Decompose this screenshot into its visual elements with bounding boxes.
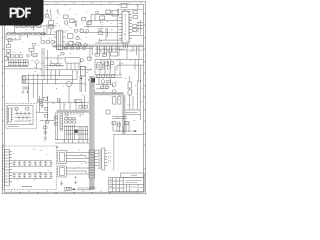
rectifier row [97,75,115,78]
net label box [75,100,82,103]
capacitor C2 [17,32,20,35]
amp block A1 [23,77,26,83]
ground symbol G1 [60,181,63,185]
resistor R25 [39,99,42,102]
resistor R3a [8,39,12,42]
title block main [109,177,144,191]
optocoupler U2 [68,34,74,39]
resistor R31 [99,32,103,35]
option board outline [8,106,33,125]
transformer T1 core lines [59,31,61,50]
frame tick marks bottom [11,191,137,193]
IC U1 left pins [119,15,122,39]
diode D4 [102,54,106,57]
fuse F1 [16,25,20,28]
wire secondary rail [95,59,143,82]
resistor R7 [82,18,86,21]
ribbon bus horizontal band right [94,92,124,95]
wire terminal rails [4,64,43,69]
capacitor C7 [121,4,127,8]
value labels option box [12,107,31,123]
resistor R34 [106,86,109,88]
resistor R15 [33,54,37,57]
terminal block row 1 [9,60,29,63]
ground symbol G4 [44,137,47,139]
resistor R32 [107,80,110,83]
frame tick marks left [2,25,4,169]
connector CN2 [58,151,67,164]
resistor R12 [76,43,80,46]
resistor R36 [84,106,87,109]
resistor R10 [133,11,138,14]
transistor Q5 [44,126,47,129]
wire left drop [9,46,34,60]
ground symbol G2 [74,177,77,184]
value labels av zone [64,150,89,169]
IC U1 type label [125,14,127,40]
thermistor RT1 [37,25,41,28]
IC U1 body [122,11,129,43]
wire right drops [120,59,135,110]
zone digits top margin [20,2,142,4]
band A terminator [89,187,94,190]
capacitor C32 [101,80,105,84]
capacitor C9 [76,36,79,39]
rectifier D1 cluster [47,10,54,33]
resistor R21 [54,117,57,120]
legend triangle [72,188,76,190]
resistor R16 [44,97,47,100]
filter choke L1 [30,25,34,28]
border frame outer [2,2,145,194]
resistor R26 [45,108,48,111]
snubber row [41,41,55,43]
switching MOSFET Q1 [68,42,73,47]
arrow mark [135,130,137,132]
keypad label [22,186,32,188]
ribbon hatch band right [94,93,125,134]
wire sub secondary [95,46,125,53]
terminal block row 2 [9,63,29,66]
keypad row 1 rail [12,161,52,166]
wire primary row [40,26,57,35]
value labels mains zone [7,29,44,52]
option label text [8,125,19,127]
capacitor C25 [40,103,43,106]
frame tick marks top [11,4,137,6]
wire right column [112,80,140,170]
capacitor C23 [118,123,121,126]
resistor R30 [111,62,114,65]
wire bottom rails [55,95,89,143]
protection box [112,11,119,17]
capacitor C2b stack [7,42,11,58]
value labels right bottom [111,97,142,132]
transformer T2 [80,66,85,76]
regulator Q3 [128,90,132,95]
border frame inner [4,4,143,192]
capacitor C18 [61,53,64,55]
dashed option box 2 [3,146,57,189]
capacitor C33 [45,15,49,18]
decoupling row right [113,97,121,105]
output filter row [106,110,110,114]
capacitor C11 [23,87,26,90]
wire main horizontal bus [52,45,143,46]
keyboard connector J2 [5,150,13,186]
wire mains row 1 [15,26,57,34]
capacitor C31 [99,28,102,31]
filter cluster mid [65,118,76,124]
capacitor C17 [86,29,89,32]
connector CN3 [58,166,67,177]
resistor R27 [45,115,48,118]
capacitor C1 [26,25,29,28]
ribbon bus vertical band A [89,76,95,190]
capacitor C12 [26,87,29,90]
value labels keypad zone [13,149,52,180]
capacitor C13 [112,83,116,87]
zone letters left margin [2,13,4,182]
PDF badge plate [0,0,44,26]
diode D2 [75,20,77,27]
PDF badge letter P [10,8,18,18]
wire U1 left fan [80,15,122,44]
wire column mid-left [56,98,83,140]
bus mounted comps [66,44,87,47]
frame tick marks right [143,25,145,169]
capacitor C16 [80,59,83,62]
filter cluster right [112,122,128,125]
dashed option box 1 [6,104,37,129]
rectifier D7 [88,57,92,60]
capacitor CX1 [22,25,26,28]
capacitor C3 [32,43,35,46]
legend box [65,187,72,190]
transformer T1 pins [54,32,66,47]
value labels terminal zone [6,52,48,68]
trimmer cluster right of U1 [133,20,141,34]
input module box [4,57,8,60]
resistor R4 [29,48,34,51]
subcircuit boundary box [117,9,143,50]
PDF badge letter F [25,8,31,18]
relay K2 roundrect [97,63,103,70]
ribbon hatch band A [90,76,93,189]
capacitor C14 [112,90,116,94]
ribbon hatch band left [57,111,90,113]
keypad row 2 rail [12,173,52,178]
IC U1 right pins [129,15,132,39]
capacitor C20 [66,114,69,117]
capacitor C15 [27,54,30,57]
junction dot heavy [80,77,82,79]
diode D6 [56,63,60,66]
capacitor C4 [64,15,69,19]
legend text lines [77,188,96,190]
diode block D8 [105,62,109,66]
value labels center zone [31,55,92,87]
wire top right entries [58,4,138,20]
power IC U4 dark [74,130,78,133]
regulator Q2 [128,82,132,88]
capacitor C27 [44,131,47,134]
relay K1 [65,57,80,63]
resistor R8 [87,22,91,25]
title block columns [109,177,144,191]
wire mains row 3 [6,39,20,41]
title block top row [121,173,144,177]
aux cluster wires [36,96,55,137]
ground symbol G3 [56,146,59,149]
capacitor C5 [64,21,68,25]
ribbon bus vertical band B [122,95,125,134]
title block text [110,175,143,187]
resistor R6 [70,19,75,23]
wire low rail 2 [37,76,89,102]
snubber box [100,16,105,20]
value labels fanout zone [97,154,113,170]
diode D3 [95,53,99,56]
transformer T1 body [57,31,63,50]
PDF badge letter D [17,8,25,18]
value labels right mid zone [99,61,143,96]
secondary row comps [63,47,92,49]
pin labels column [109,152,111,162]
capacitor C8 [133,16,138,19]
heatsink block dark [91,78,95,83]
junction dots [47,10,137,95]
option circuit parts [15,107,32,121]
keypad row 2 switches [13,173,53,178]
wire low rail 1 [22,70,85,102]
feedback comps [75,30,84,33]
wire mains row 2 [6,34,46,40]
value labels top zone [46,9,132,43]
zone digits bottom margin [20,192,111,194]
capacitor C6 [96,11,99,14]
value labels center bottom [41,100,82,143]
resistor R22 [54,123,57,126]
IF module box [60,114,63,131]
diode D5 [51,63,55,66]
connector J1 [9,108,13,122]
varistor row RV1 [7,32,45,35]
wire long verticals left [42,48,47,79]
resistor R35 [79,106,82,109]
capacitor C26 [46,121,49,124]
wire band B bottom [113,121,143,134]
capacitor C30 [97,65,100,68]
wire comb verticals [65,125,89,143]
resistor R9 [106,10,110,14]
main board connector CN1 [89,150,98,178]
zone letters right margin [143,13,145,134]
wire mid rail [45,55,92,70]
keypad row 1 switches [13,161,53,166]
capacitor C10 [111,52,118,56]
wire post-rectifier [96,78,113,89]
wire fan to main connector [66,153,89,174]
ground cluster [22,91,29,94]
motor M1 [66,81,71,86]
wire secondary rows [95,59,122,77]
resistor R33 [101,86,104,88]
bridge rectifier BR1 [34,60,38,64]
header row boxes [11,55,23,58]
ribbon fanout connector P1 [98,148,108,170]
ribbon bus horizontal band left [57,110,90,113]
wire U1 to frame [124,23,144,49]
wire mid verticals below bus [90,46,139,59]
